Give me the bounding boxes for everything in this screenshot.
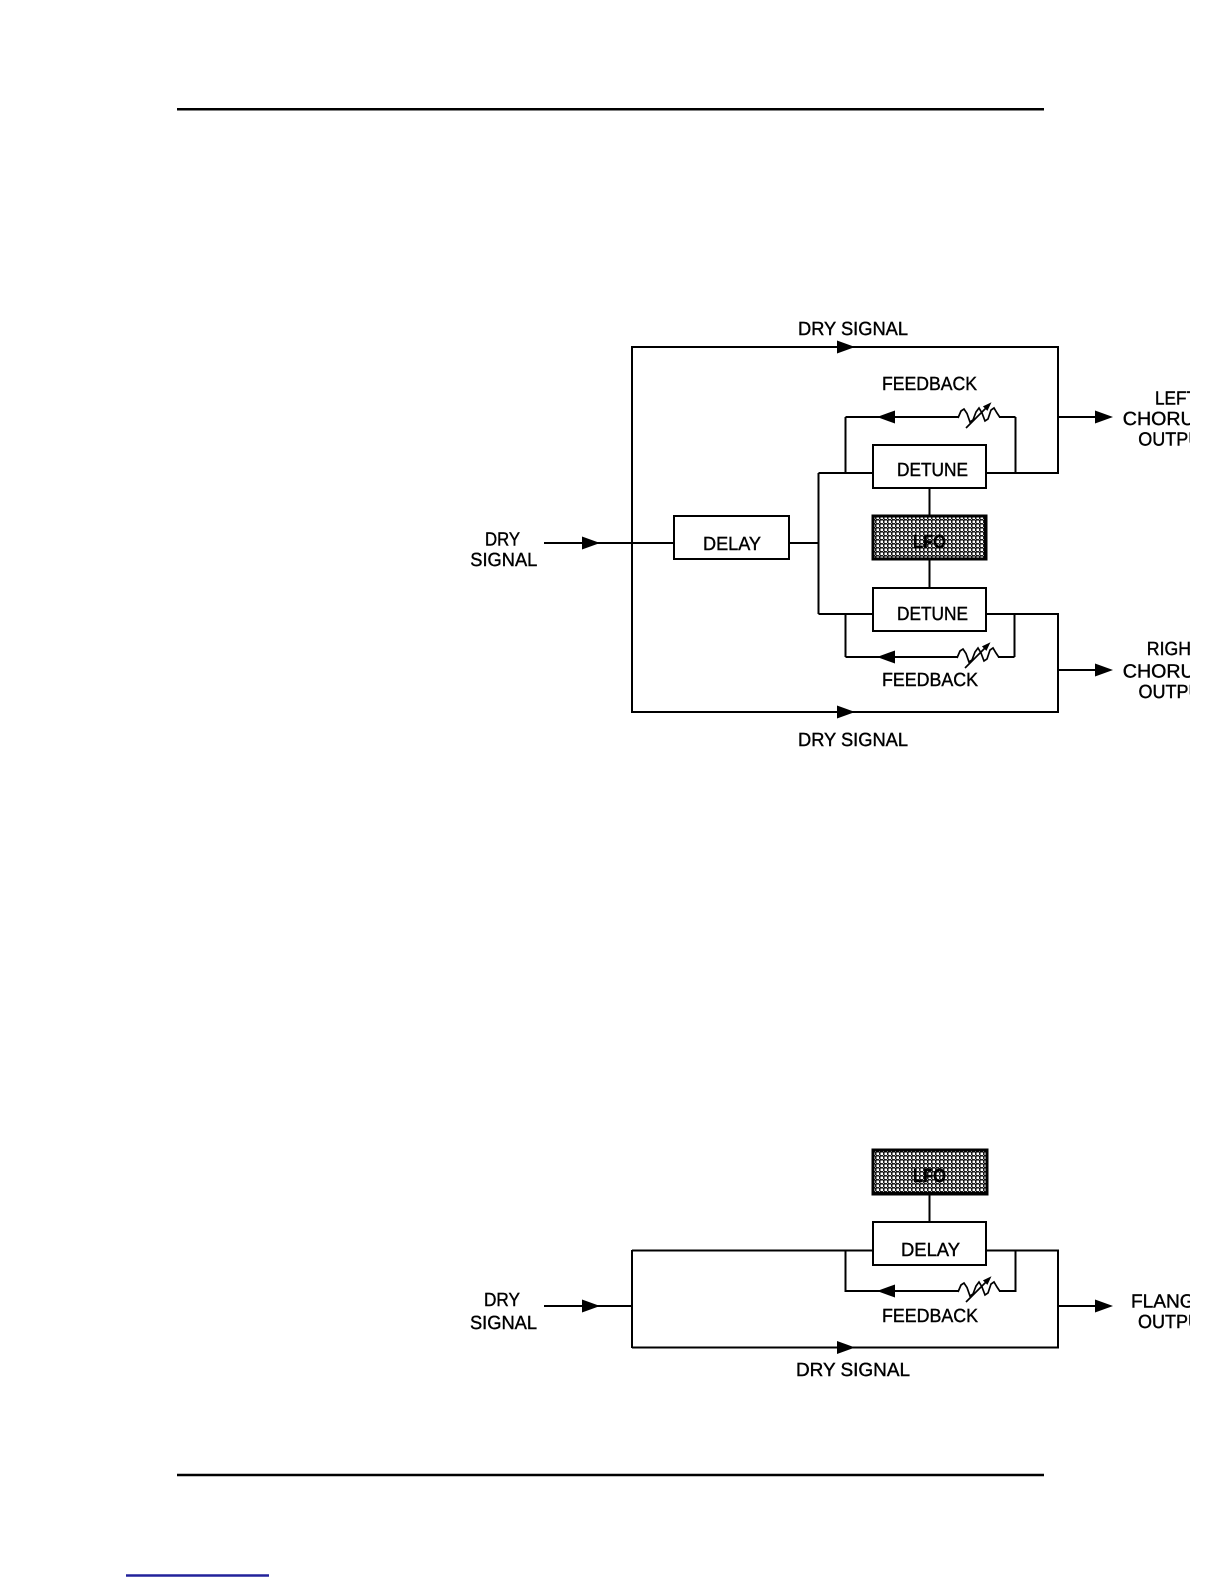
svg-text:DRY: DRY (485, 530, 520, 551)
wire: flanger feedback horizontal (846, 1290, 960, 1292)
footer link underline (blue) (126, 1574, 269, 1577)
wire: upper feedback horizontal right stub (999, 416, 1016, 418)
arrowhead: right chorus output (1095, 664, 1113, 677)
svg-text:DETUNE: DETUNE (897, 604, 968, 625)
svg-text:DRY SIGNAL: DRY SIGNAL (796, 1360, 910, 1381)
svg-text:DRY SIGNAL: DRY SIGNAL (798, 730, 908, 751)
svg-text:DRY: DRY (484, 1290, 520, 1311)
wire: lower feedback horizontal right stub (998, 656, 1015, 658)
wire: flanger outer right vertical (1057, 1250, 1059, 1348)
svg-text:DETUNE: DETUNE (897, 460, 968, 481)
wire: flanger feedback left vertical (845, 1250, 847, 1292)
wire: chorus outer left vertical (631, 346, 633, 713)
wire: flanger output (1058, 1305, 1096, 1307)
wire: lower feedback left vertical (845, 614, 847, 657)
wire: flanger outer left vertical (631, 1250, 633, 1348)
wire: lfo to upper detune connector (929, 488, 931, 516)
wire: flanger input (544, 1305, 632, 1307)
box DELAY (chorus) (674, 516, 789, 559)
wire: delay to junction stub (789, 542, 819, 544)
wire: input to delay stub (632, 542, 674, 544)
wire: lower feedback right vertical (1014, 614, 1016, 657)
svg-text:SIGNAL: SIGNAL (470, 550, 537, 571)
wire: lfo to delay connector (flanger) (929, 1194, 931, 1222)
wire: flanger feedback right vertical (1015, 1250, 1017, 1292)
box LFO (chorus, dithered) (873, 516, 986, 559)
wire: flanger top horizontal left of delay (632, 1250, 873, 1252)
wire: flanger bottom dry-signal horizontal (632, 1347, 1059, 1349)
arrowhead: chorus top wire right (837, 341, 855, 354)
wire: chorus outer right vertical upper (1057, 346, 1059, 474)
box DETUNE lower (873, 588, 986, 631)
svg-text:LFO: LFO (913, 532, 946, 553)
box LFO (flanger, dithered) (873, 1150, 987, 1194)
wire: right chorus output (1058, 669, 1096, 671)
svg-text:FEEDBACK: FEEDBACK (882, 374, 977, 395)
arrowhead: left chorus output (1095, 411, 1113, 424)
box DELAY (flanger) (873, 1222, 986, 1265)
wire: chorus input (544, 542, 632, 544)
svg-text:FEEDBACK: FEEDBACK (882, 670, 978, 691)
arrowhead: lower feedback left (877, 651, 895, 664)
clip mask: white strip over right page margin to clip output labels (1190, 0, 1224, 1584)
wire: lower signal line right of detune (986, 613, 1059, 615)
wire: flanger top horizontal right of delay (986, 1250, 1059, 1252)
svg-text:FEEDBACK: FEEDBACK (882, 1306, 978, 1327)
wire: lower feedback horizontal (846, 656, 959, 658)
arrowhead: flanger output (1095, 1300, 1113, 1313)
footer rule (177, 1474, 1044, 1477)
arrowhead: chorus bottom wire right (837, 706, 855, 719)
arrowhead: flanger feedback left (877, 1285, 895, 1298)
wire: lower signal line left of detune (819, 613, 874, 615)
svg-text:DELAY: DELAY (901, 1240, 960, 1261)
wire: upper signal line right of detune (986, 472, 1059, 474)
wire: upper feedback horizontal (846, 416, 960, 418)
wire: chorus top dry-signal horizontal (632, 346, 1059, 348)
wire: junction vertical after delay (818, 473, 820, 614)
header rule (177, 108, 1044, 111)
wire: upper signal line left of detune (819, 472, 874, 474)
wire: left chorus output (1058, 416, 1096, 418)
svg-text:DELAY: DELAY (703, 534, 761, 555)
wire: chorus bottom dry-signal horizontal (632, 711, 1059, 713)
arrowhead: chorus input right (582, 537, 600, 550)
box DETUNE upper (873, 445, 986, 488)
svg-text:SIGNAL: SIGNAL (470, 1313, 537, 1334)
arrowhead: flanger bottom wire right (837, 1341, 855, 1354)
arrowhead: flanger input right (582, 1300, 600, 1313)
svg-text:LFO: LFO (913, 1166, 946, 1187)
wire: chorus outer right vertical lower (1057, 613, 1059, 713)
arrowhead: upper feedback left (877, 411, 895, 424)
wire: lfo to lower detune connector (929, 559, 931, 588)
wire: upper feedback left vertical (845, 417, 847, 473)
potentiometer: lower feedback gain (957, 642, 999, 668)
wire: flanger feedback horizontal right stub (999, 1290, 1016, 1292)
potentiometer: upper feedback gain (958, 402, 1000, 428)
svg-text:DRY SIGNAL: DRY SIGNAL (798, 319, 908, 340)
potentiometer: flanger feedback gain (958, 1276, 1000, 1302)
wire: upper feedback right vertical (1015, 417, 1017, 473)
